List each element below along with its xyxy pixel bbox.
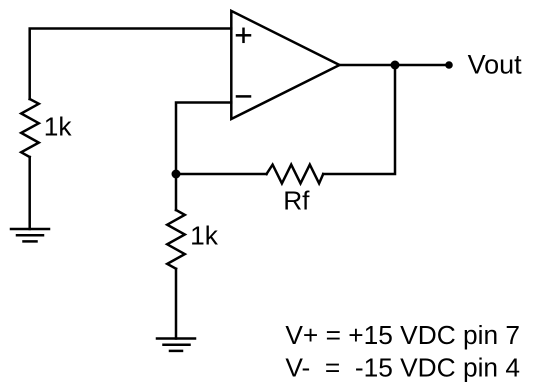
svg-text:1k: 1k bbox=[44, 112, 73, 142]
svg-text:1k: 1k bbox=[190, 221, 219, 251]
output node junction dot bbox=[391, 61, 400, 70]
ground (left) bbox=[11, 229, 49, 241]
wire from node A to resistor Rf bbox=[176, 173, 267, 176]
svg-text:Vout: Vout bbox=[468, 49, 523, 79]
wire from node A down to resistor R2 bbox=[175, 174, 178, 210]
Vout terminal dot bbox=[445, 61, 453, 69]
op-amp plus input marking bbox=[237, 29, 250, 42]
node A junction dot bbox=[172, 170, 181, 179]
svg-text:V+ = +15 VDC pin 7: V+ = +15 VDC pin 7 bbox=[285, 320, 520, 350]
op-amp U1 bbox=[231, 11, 339, 119]
wire from non-inverting input to left rail bbox=[30, 29, 232, 100]
op-amp minus input marking bbox=[237, 95, 250, 98]
wire from resistor R2 to ground bbox=[175, 269, 178, 339]
svg-text:V- = -15 VDC pin 4: V- = -15 VDC pin 4 bbox=[285, 353, 520, 383]
resistor Rf (feedback) bbox=[267, 165, 324, 184]
svg-text:Rf: Rf bbox=[283, 186, 310, 216]
ground (bottom) bbox=[157, 339, 195, 351]
resistor R2 1k (inverting node to ground) bbox=[167, 210, 185, 269]
wire from resistor Rf up to output node bbox=[323, 65, 395, 174]
wire op-amp output to Vout terminal bbox=[340, 64, 450, 67]
resistor R1 1k (left, non-inverting input to ground) bbox=[21, 99, 39, 157]
wire from inverting input to node A bbox=[176, 103, 231, 175]
wire from resistor R1 to ground bbox=[28, 157, 31, 229]
